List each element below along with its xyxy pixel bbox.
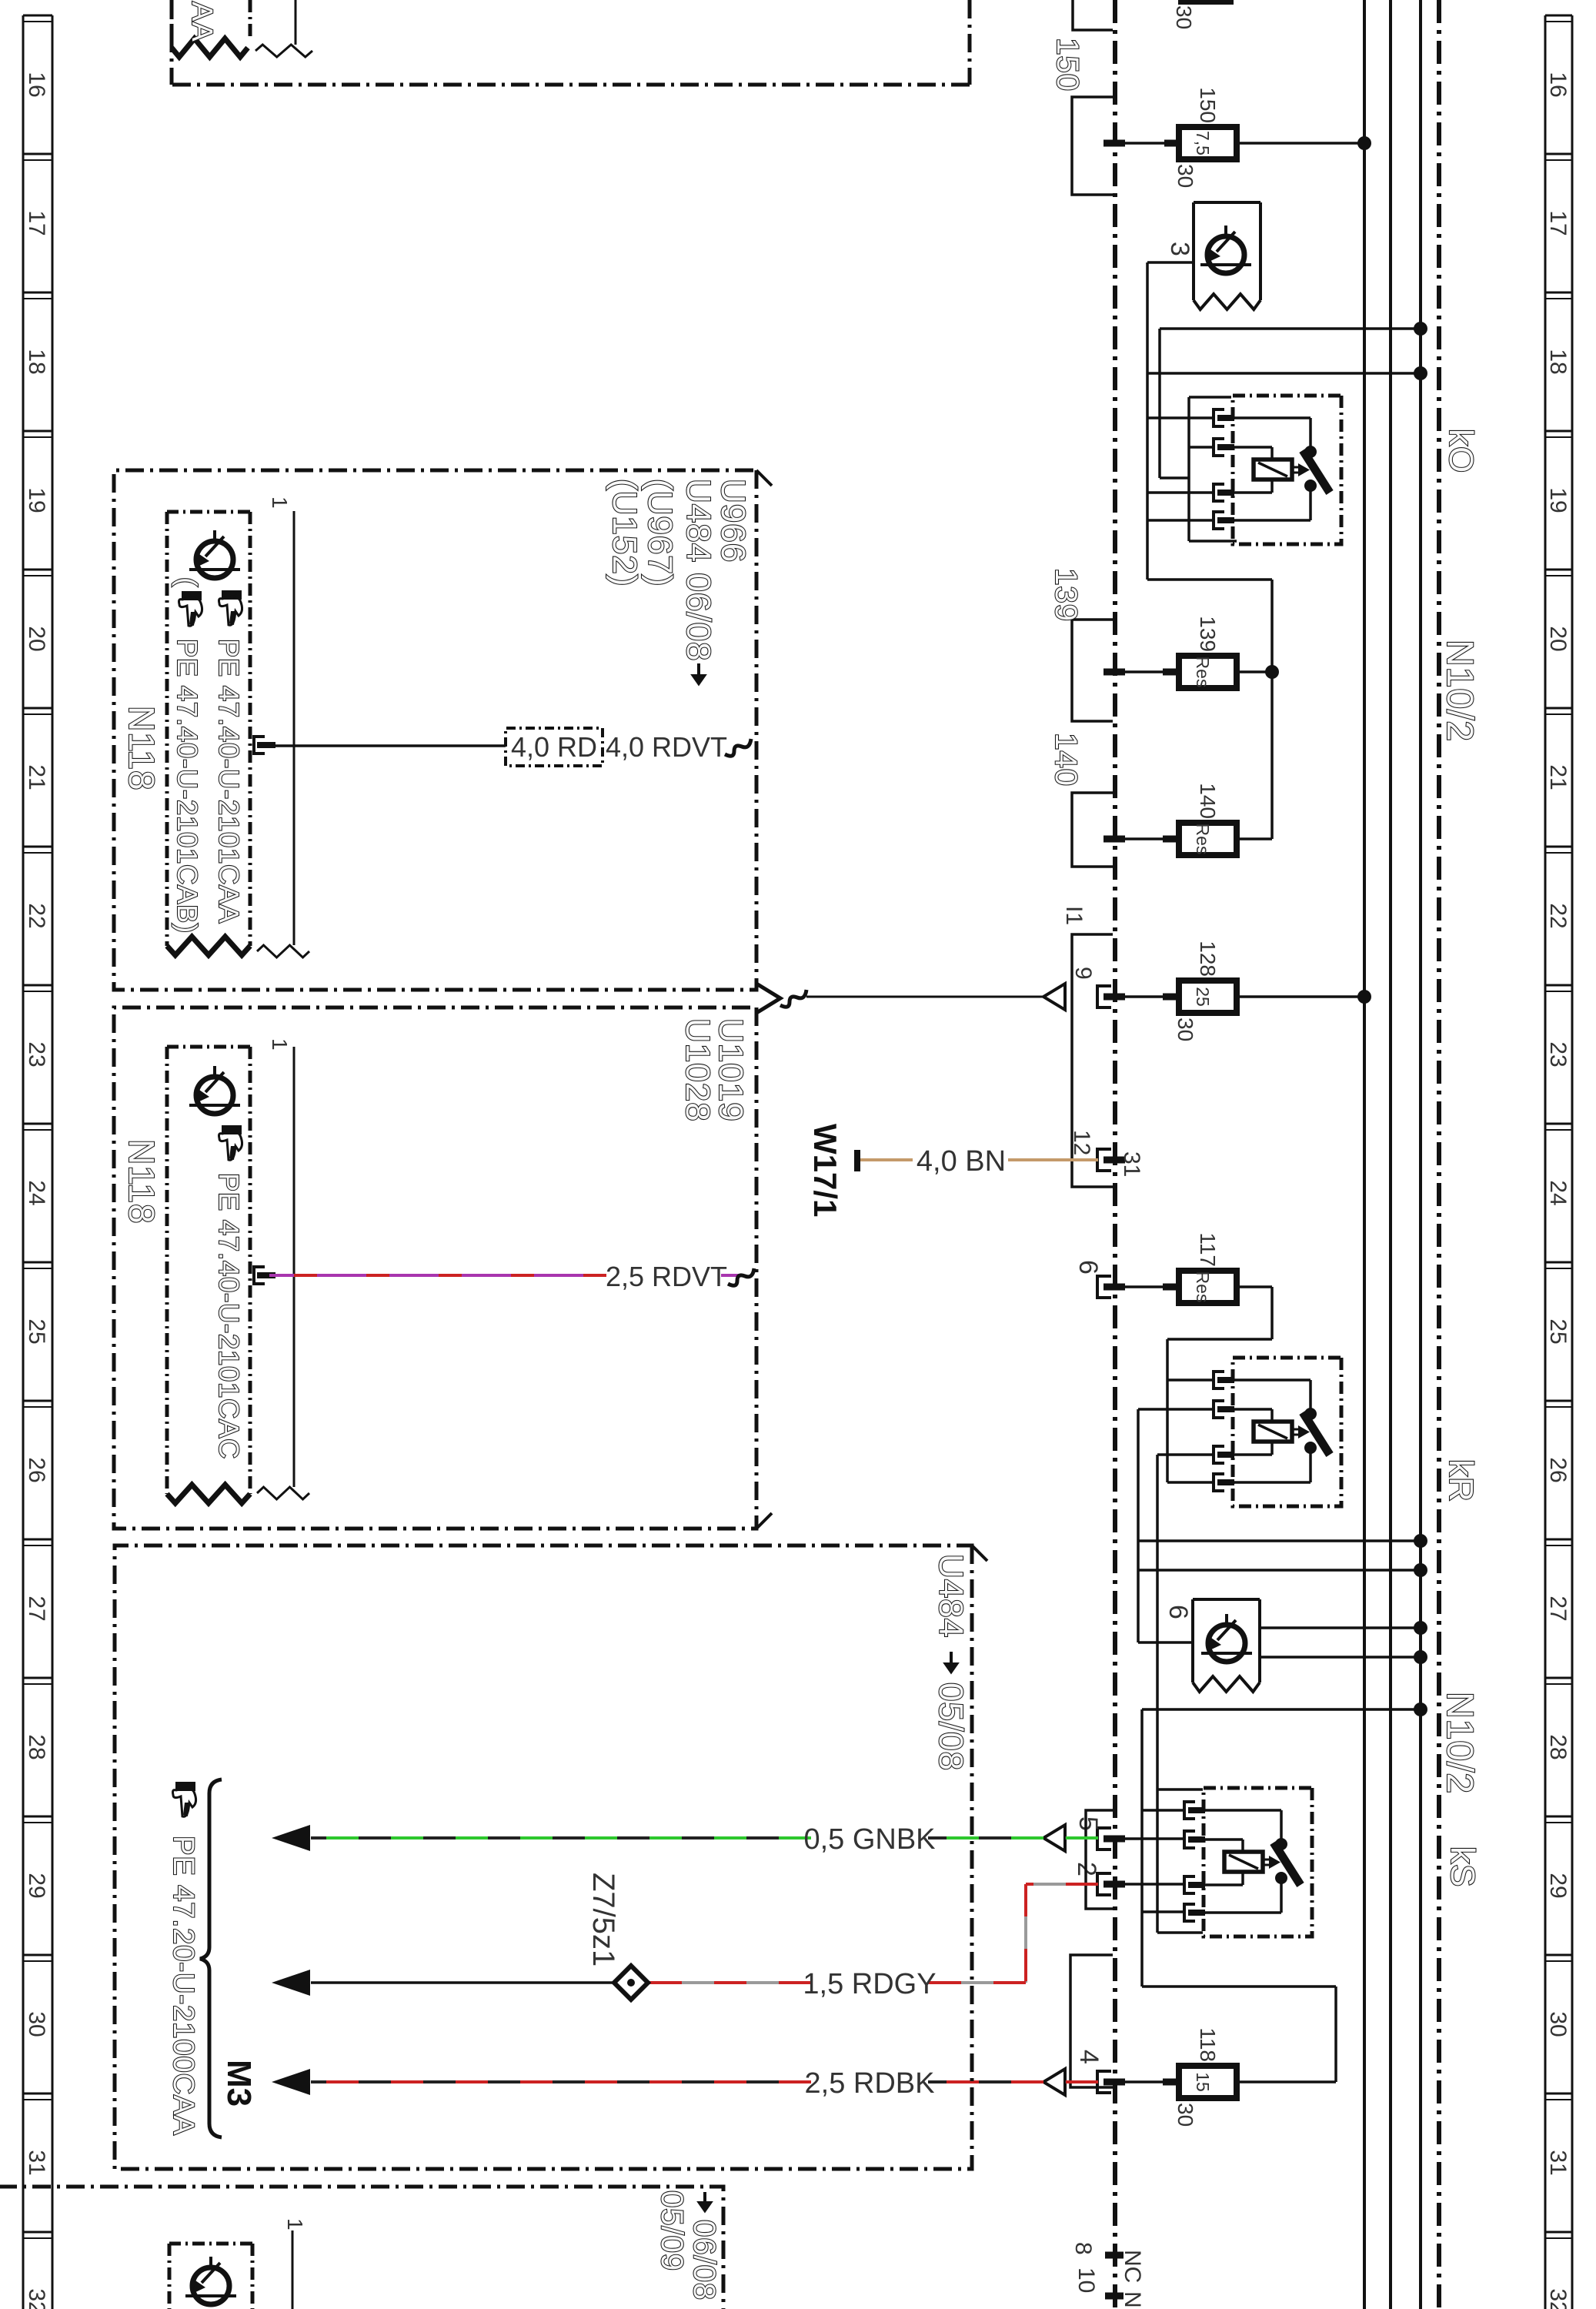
svg-text:4,0 RD: 4,0 RD: [511, 731, 597, 763]
svg-text:139: 139: [1196, 616, 1220, 652]
connector bracket pin 139: [1072, 620, 1113, 721]
connector bracket pins 5-2: [1086, 1810, 1113, 1909]
relay kR: [1214, 1358, 1341, 1506]
svg-text:17: 17: [1545, 210, 1571, 236]
label 8: [1070, 2242, 1096, 2255]
relay kS: [1184, 1788, 1312, 1936]
group box U484: [115, 1545, 987, 2169]
svg-text:Res: Res: [1193, 657, 1213, 688]
label kR: [1442, 1459, 1480, 1502]
svg-text:25: 25: [24, 1318, 49, 1344]
label 12: [1069, 1130, 1094, 1155]
brace PE 47.20: [200, 1779, 222, 2137]
svg-text:28: 28: [1545, 1734, 1571, 1759]
wires lamp 6 to bus: [1260, 1621, 1427, 1664]
svg-text:18: 18: [24, 349, 49, 374]
svg-text:20: 20: [24, 626, 49, 651]
svg-text:Res: Res: [1193, 824, 1213, 855]
label 3: [1165, 242, 1194, 256]
wire pin 2 internal: [1108, 1883, 1184, 1886]
wire 2,5 RDVT: [269, 1261, 754, 1292]
svg-text:4,0 BN: 4,0 BN: [917, 1145, 1006, 1178]
connector bracket pin 4 group: [1070, 1955, 1113, 2087]
wire 4,0 BN ground: [860, 1158, 1098, 1161]
wire RDGY lower solid: [272, 1970, 614, 1996]
squiggle wire 9: [780, 990, 806, 1007]
svg-text:5: 5: [1073, 1816, 1103, 1831]
svg-text:6: 6: [1164, 1605, 1193, 1619]
svg-text:31: 31: [1545, 2150, 1571, 2175]
svg-text:NC: NC: [1120, 2291, 1145, 2309]
splice Z7/5z1 diamond: [614, 1966, 648, 2000]
svg-text:150: 150: [1196, 87, 1220, 123]
svg-text:N118: N118: [122, 1139, 162, 1225]
label 150 external: [1050, 38, 1084, 92]
svg-text:3: 3: [1165, 242, 1194, 256]
svg-text:06/08 -: 06/08 -: [687, 2220, 721, 2309]
component N118 (unit 4, cut): [169, 2218, 307, 2309]
svg-text:W17/1: W17/1: [807, 1124, 843, 1217]
svg-text:N118: N118: [122, 706, 162, 791]
wires relay kR circuit: [1138, 1287, 1427, 1933]
fuse F118 15A: [1104, 2027, 1237, 2127]
label I1: [1061, 906, 1087, 925]
label 10: [1073, 2267, 1099, 2293]
ground terminal W17/1 tick: [854, 1150, 860, 1171]
svg-text:4,0 RDVT: 4,0 RDVT: [606, 731, 727, 763]
svg-text:PE 47.40-U-2101CAA: PE 47.40-U-2101CAA: [213, 639, 245, 924]
svg-text:2,5 RDBK: 2,5 RDBK: [805, 2067, 935, 2100]
component remnant AA (cut): [172, 0, 312, 57]
svg-text:140: 140: [1049, 733, 1083, 787]
svg-text:25: 25: [1545, 1318, 1571, 1344]
component N118 (unit 1): [167, 496, 309, 957]
svg-text:PE 47.40-U-2101CAC: PE 47.40-U-2101CAC: [213, 1173, 245, 1459]
control unit N10/2 bottom border: [1113, 0, 1117, 2309]
label N10/2 (left): [1439, 640, 1480, 742]
connector small bracket pin 9: [1097, 986, 1111, 1007]
pin tick 5: [1104, 1836, 1125, 1843]
svg-text:M3: M3: [220, 2060, 258, 2107]
cut connector bracket left edge: [1073, 0, 1113, 30]
svg-text:16: 16: [1545, 72, 1571, 97]
svg-text:26: 26: [1545, 1457, 1571, 1482]
svg-text:kS: kS: [1444, 1846, 1481, 1887]
svg-text:18: 18: [1545, 349, 1571, 374]
svg-text:U484 06/08: U484 06/08: [679, 479, 717, 662]
svg-text:15: 15: [1193, 2072, 1213, 2092]
label U966: [714, 479, 752, 563]
label 5 pin: [1073, 1816, 1103, 1831]
svg-text:1: 1: [268, 496, 292, 509]
triangle marker wire 9: [1043, 984, 1065, 1010]
svg-text:22: 22: [24, 903, 49, 928]
wire 2,5 RDBK: [272, 2067, 1098, 2100]
hand icon PE 47.20: [173, 1782, 196, 1816]
label Z7/5z1: [586, 1873, 620, 1966]
svg-text:30: 30: [1174, 2103, 1197, 2127]
svg-text:139: 139: [1049, 568, 1083, 622]
pin tick 2: [1104, 1881, 1125, 1888]
wire 4,0 RD / 4,0 RDVT: [269, 728, 751, 766]
cut fuse at left edge: [1172, 2, 1234, 29]
svg-text:28: 28: [24, 1734, 49, 1759]
svg-text:0,5 GNBK: 0,5 GNBK: [803, 1823, 935, 1856]
label N118 (unit 1): [122, 706, 162, 791]
svg-text:PE 47.40-U-2101CAB): PE 47.40-U-2101CAB): [172, 639, 203, 934]
svg-text:30: 30: [1545, 2011, 1571, 2037]
svg-text:05/08: 05/08: [932, 1682, 970, 1771]
label NC (pin 10): [1120, 2291, 1145, 2309]
svg-text:U1028: U1028: [679, 1018, 716, 1122]
svg-text:150: 150: [1050, 38, 1084, 92]
connector small bracket pin 2: [1097, 1873, 1111, 1895]
svg-text:I1: I1: [1061, 906, 1087, 925]
svg-text:23: 23: [1545, 1041, 1571, 1067]
wire bus (bus2): [1389, 0, 1392, 2309]
svg-text:16: 16: [24, 72, 49, 97]
group box U966: [114, 470, 772, 990]
svg-text:19: 19: [1545, 487, 1571, 513]
svg-text:05/09: 05/09: [655, 2190, 689, 2271]
svg-text:30: 30: [1174, 164, 1197, 188]
svg-text:(U967): (U967): [641, 479, 679, 587]
label 6 lamp: [1164, 1605, 1193, 1619]
indicator lamp (circuit 6): [1193, 1599, 1260, 1692]
svg-text:31: 31: [24, 2150, 49, 2175]
group box U1019/U1028: [114, 1007, 772, 1529]
pin tick 12: [1104, 1157, 1125, 1164]
label 4 pin: [1074, 2050, 1104, 2064]
svg-text:31: 31: [1119, 1151, 1144, 1177]
label U484 -05/08: [932, 1554, 970, 1771]
fuse Res (139): [1104, 616, 1279, 688]
svg-text:7,5: 7,5: [1193, 131, 1213, 155]
svg-text:24: 24: [1545, 1180, 1571, 1205]
svg-text:NC: NC: [1120, 2250, 1145, 2283]
label 6 pin: [1073, 1260, 1103, 1275]
component N118 (unit 2): [167, 1038, 309, 1503]
svg-text:U1019: U1019: [712, 1018, 750, 1122]
svg-text:6: 6: [1073, 1260, 1103, 1275]
svg-text:118: 118: [1196, 2027, 1220, 2062]
label 06/08-05/09: [655, 2190, 721, 2309]
connector bracket pin 140: [1072, 793, 1113, 867]
svg-text:23: 23: [24, 1041, 49, 1067]
svg-text:U484: U484: [932, 1554, 970, 1638]
connector bracket pins I1: [1072, 934, 1113, 1187]
wires relay kO circuit: [1147, 262, 1427, 839]
svg-text:128: 128: [1196, 941, 1220, 977]
wire 9 to component boxes: [806, 996, 1043, 998]
connector small bracket pin 5: [1097, 1828, 1111, 1850]
svg-text:21: 21: [24, 764, 49, 790]
brace between boxes: [756, 984, 780, 1013]
svg-text:8: 8: [1070, 2242, 1096, 2255]
svg-text:N10/2: N10/2: [1439, 1692, 1480, 1794]
svg-text:25: 25: [1193, 987, 1213, 1007]
label U1019: [712, 1018, 750, 1122]
label 9: [1070, 967, 1096, 980]
svg-text:20: 20: [1545, 626, 1571, 651]
wire 0,5 GNBK: [272, 1823, 1098, 1856]
svg-text:117: 117: [1196, 1232, 1220, 1267]
svg-text:32: 32: [24, 2288, 49, 2309]
svg-text:Res: Res: [1193, 1271, 1213, 1303]
label N10/2 (right): [1439, 1692, 1480, 1794]
wires relay kS circuit: [1142, 1703, 1427, 2082]
svg-text:kO: kO: [1442, 429, 1480, 473]
label 31: [1119, 1151, 1144, 1177]
svg-text:19: 19: [24, 487, 49, 513]
indicator lamp (circuit 3): [1194, 202, 1260, 309]
connector bracket pin 150: [1072, 97, 1113, 195]
label 2 pin: [1072, 1862, 1101, 1876]
svg-text:10: 10: [1073, 2267, 1099, 2293]
svg-text:21: 21: [1545, 764, 1571, 790]
svg-text:4: 4: [1074, 2050, 1104, 2064]
svg-text:kR: kR: [1442, 1459, 1480, 1502]
label NC (pin 8): [1120, 2250, 1145, 2283]
label U1028: [679, 1018, 716, 1122]
pin tick 8 NC: [1105, 2252, 1124, 2259]
connector small bracket pin 12: [1097, 1149, 1111, 1171]
label U484 06/08: [679, 479, 717, 683]
fuse F150 7,5A with feed wires: [1104, 87, 1371, 188]
svg-text:22: 22: [1545, 903, 1571, 928]
svg-text:17: 17: [24, 210, 49, 236]
label (U967): [641, 479, 679, 587]
label W17/1: [807, 1124, 843, 1217]
fuse Res (140): [1104, 783, 1272, 855]
connector small bracket pin 4: [1097, 2071, 1111, 2093]
fuse F128 25A: [1104, 941, 1371, 1041]
pin tick 10 NC: [1105, 2293, 1124, 2300]
fuse Res (117): [1104, 1232, 1272, 1303]
svg-text:24: 24: [24, 1180, 49, 1205]
svg-text:26: 26: [24, 1457, 49, 1482]
wire 1,5 RDGY: [646, 1884, 1098, 2000]
label (U152): [606, 479, 643, 587]
svg-text:U966: U966: [714, 479, 752, 563]
group box 06/08-05/09 (cut): [0, 2187, 723, 2309]
svg-text:N10/2: N10/2: [1439, 640, 1480, 742]
svg-text:1: 1: [268, 1038, 292, 1051]
svg-text:30: 30: [24, 2011, 49, 2037]
wire pin 5 internal: [1108, 1837, 1184, 1840]
svg-text:29: 29: [1545, 1873, 1571, 1898]
svg-text:27: 27: [1545, 1596, 1571, 1621]
svg-text:30: 30: [1172, 5, 1196, 29]
svg-text:12: 12: [1069, 1130, 1094, 1155]
svg-text:29: 29: [24, 1873, 49, 1898]
group box left (cut): [172, 0, 970, 85]
svg-text:9: 9: [1070, 967, 1096, 980]
label 139 external: [1049, 568, 1083, 622]
svg-text:140: 140: [1196, 783, 1220, 819]
wire bus (bus3): [1363, 0, 1366, 2309]
label 4,0 BN: [917, 1145, 1006, 1178]
svg-text:Z7/5z1: Z7/5z1: [586, 1873, 620, 1966]
svg-text:32: 32: [1545, 2288, 1571, 2309]
svg-text:30: 30: [1174, 1017, 1197, 1041]
svg-text:27: 27: [24, 1596, 49, 1621]
label kO: [1442, 429, 1480, 473]
label 140 external: [1049, 733, 1083, 787]
label kS: [1444, 1846, 1481, 1887]
svg-text:2,5 RDVT: 2,5 RDVT: [606, 1261, 727, 1292]
svg-text:1: 1: [283, 2218, 307, 2230]
relay kO: [1214, 396, 1341, 544]
label N118 (unit 2): [122, 1139, 162, 1225]
svg-text:1,5 RDGY: 1,5 RDGY: [803, 1968, 936, 2000]
wire bus circuit 30 (bus1): [1419, 0, 1422, 2309]
label M3: [220, 2060, 258, 2107]
svg-text:(U152): (U152): [606, 479, 643, 587]
svg-text:(: (: [172, 577, 203, 587]
svg-text:PE 47.20-U-2100CAA: PE 47.20-U-2100CAA: [167, 1836, 199, 2136]
svg-text:AA: AA: [185, 2, 218, 42]
control unit N10/2 top border: [1437, 0, 1441, 2309]
connector small bracket pin 6: [1097, 1276, 1111, 1298]
label PE 47.20-U-2100CAA: [167, 1836, 199, 2136]
